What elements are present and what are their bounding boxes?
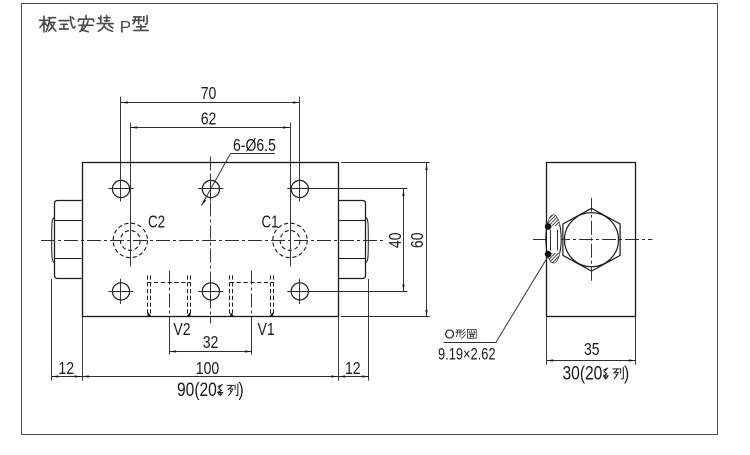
svg-text:C2: C2 bbox=[148, 213, 165, 232]
svg-text:62: 62 bbox=[201, 109, 217, 129]
svg-text:12: 12 bbox=[58, 358, 74, 378]
svg-text:60: 60 bbox=[408, 232, 428, 248]
svg-text:P: P bbox=[120, 18, 131, 37]
svg-text:V2: V2 bbox=[173, 319, 190, 339]
svg-text:): ) bbox=[624, 362, 629, 384]
svg-text:70: 70 bbox=[201, 83, 217, 103]
svg-text:90(20: 90(20 bbox=[177, 379, 217, 401]
svg-text:6-Ø6.5: 6-Ø6.5 bbox=[233, 135, 276, 155]
svg-text:12: 12 bbox=[345, 358, 361, 378]
svg-text:35: 35 bbox=[584, 339, 600, 359]
svg-text:): ) bbox=[239, 379, 244, 401]
svg-text:32: 32 bbox=[203, 333, 219, 353]
svg-text:30(20: 30(20 bbox=[563, 362, 603, 384]
svg-text:40: 40 bbox=[385, 232, 405, 248]
svg-text:C1: C1 bbox=[262, 213, 279, 232]
svg-text:9.19×2.62: 9.19×2.62 bbox=[438, 346, 496, 364]
svg-text:O: O bbox=[445, 327, 455, 342]
svg-text:V1: V1 bbox=[258, 319, 275, 339]
svg-text:100: 100 bbox=[196, 358, 219, 378]
